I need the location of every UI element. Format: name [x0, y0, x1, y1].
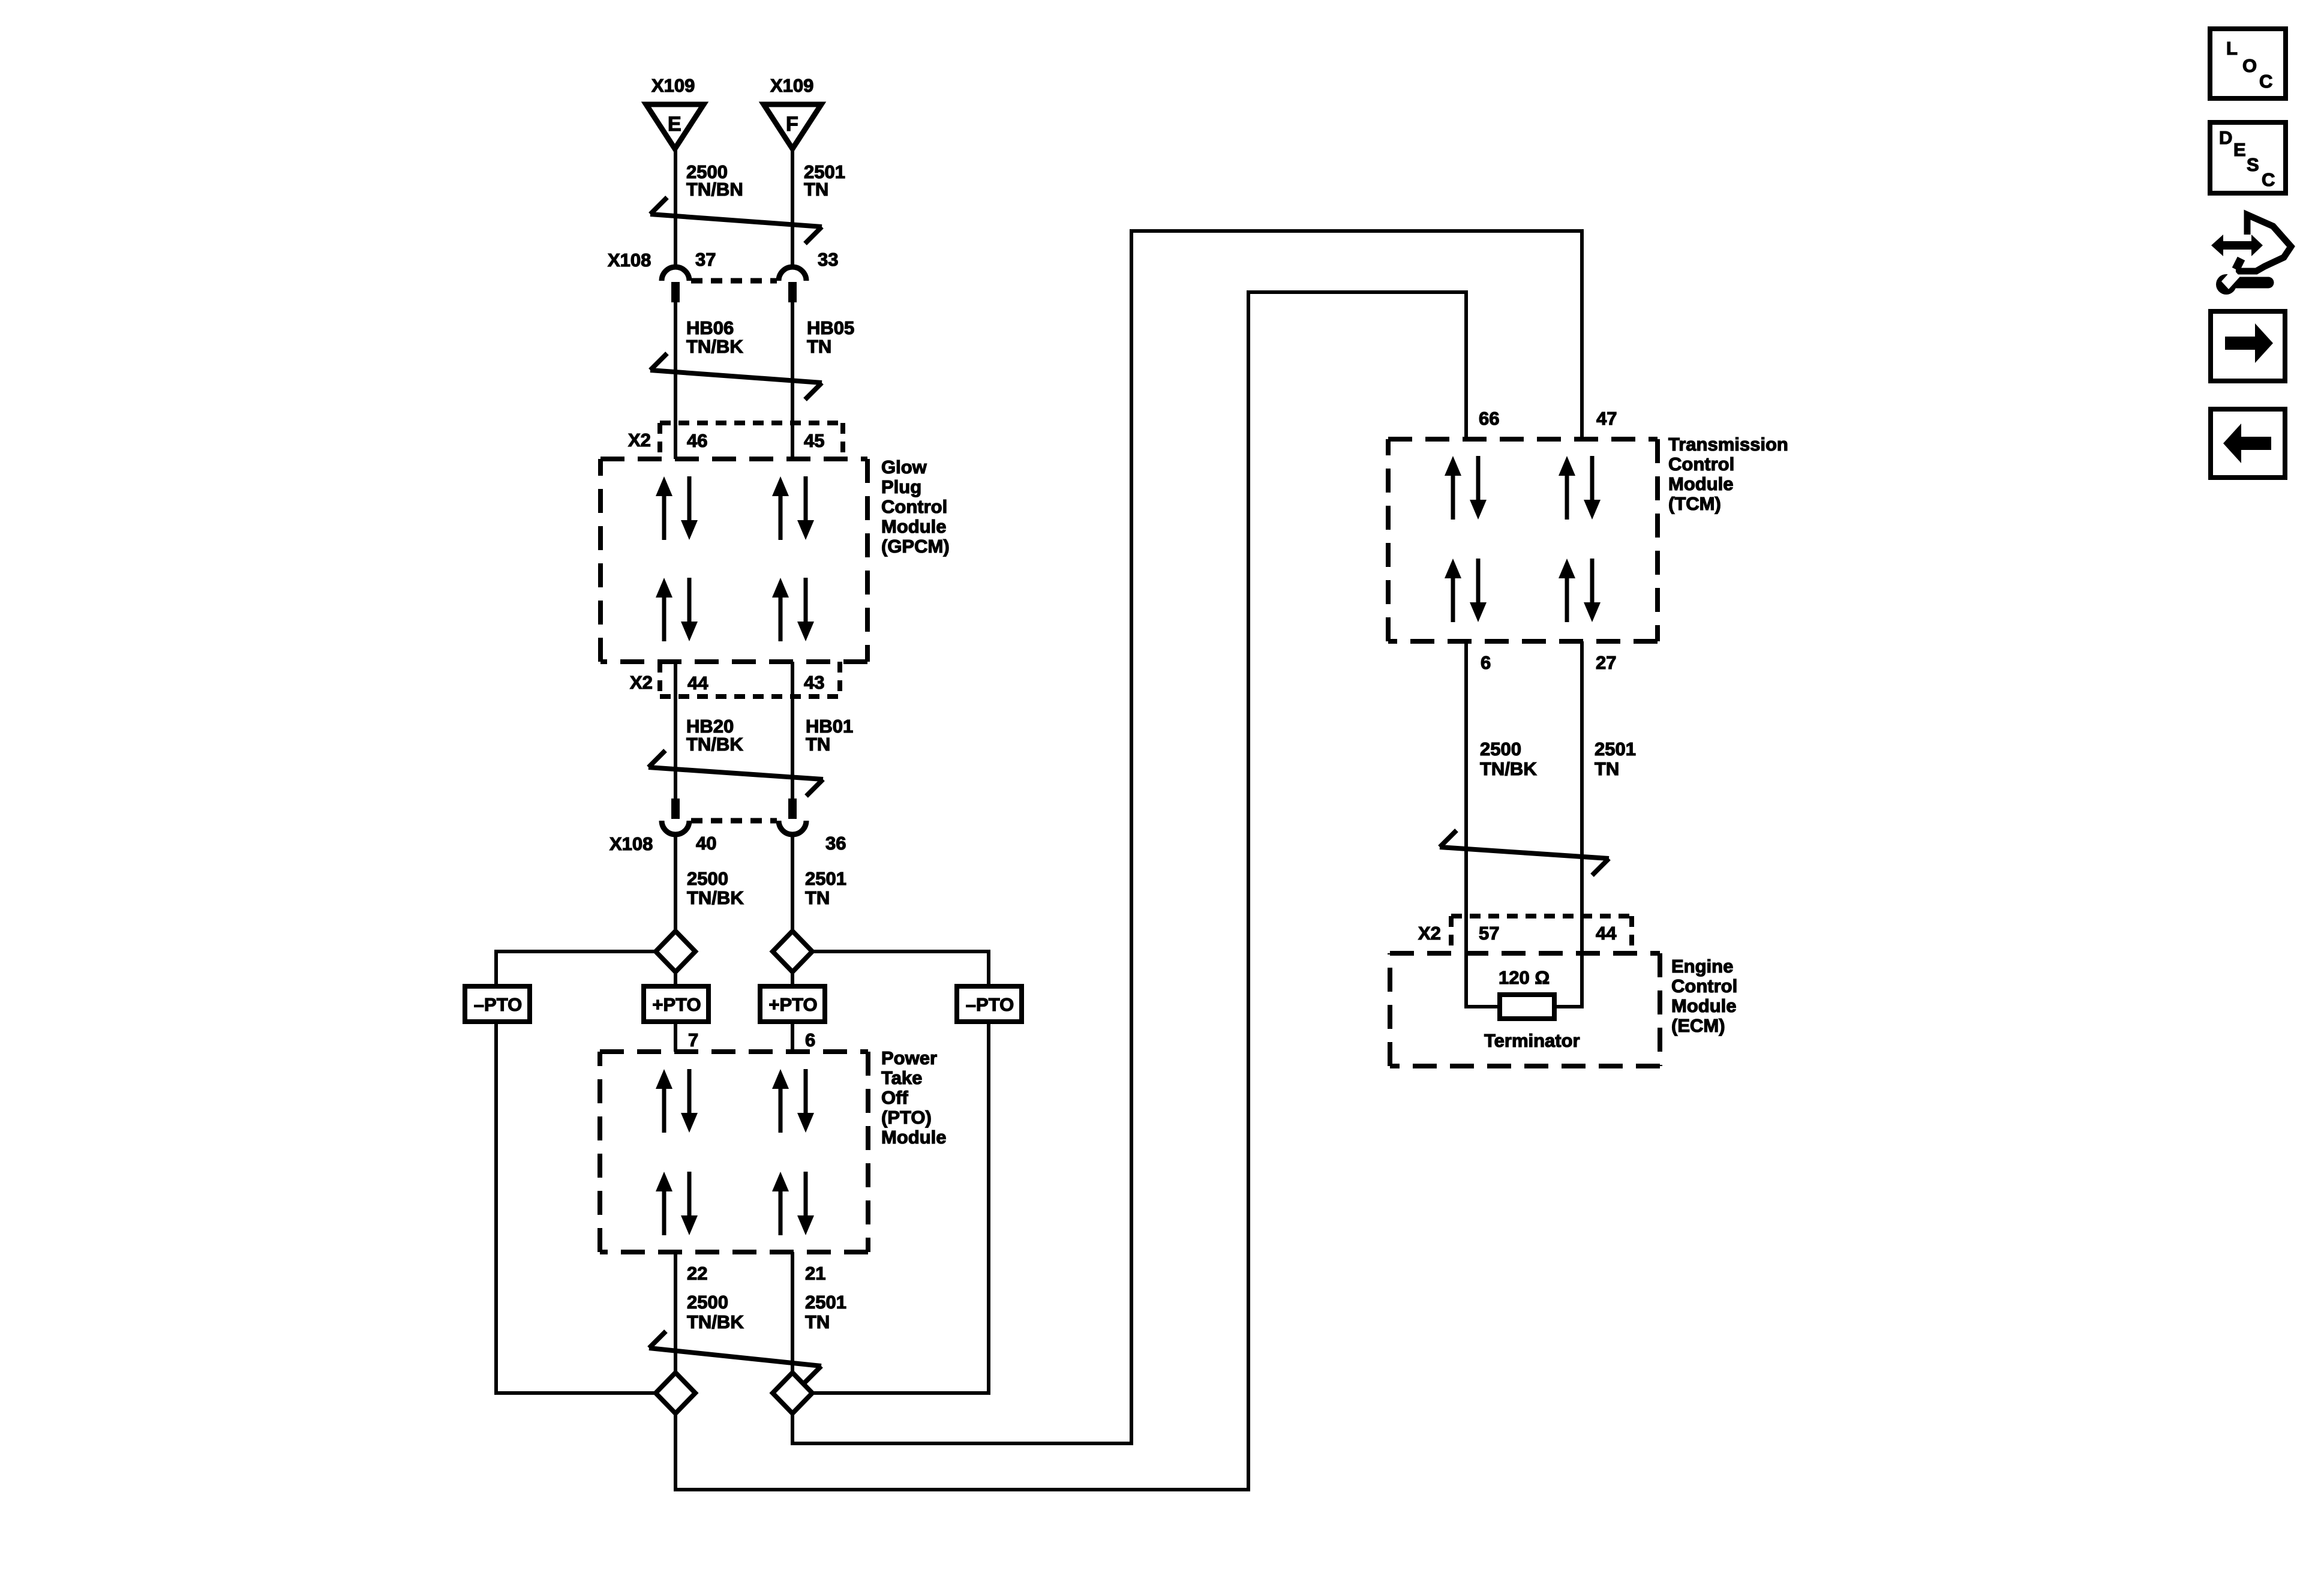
icon wrench	[2216, 274, 2236, 295]
wire diamond to +PTO (left)	[674, 972, 677, 986]
svg-text:X2: X2	[630, 672, 653, 693]
wire 2501 TN from X109-F down	[791, 149, 794, 267]
splice diamond (2501)	[773, 931, 812, 972]
svg-text:2501: 2501	[805, 868, 846, 889]
svg-text:TN/BK: TN/BK	[1480, 758, 1537, 779]
svg-text:Module: Module	[881, 1127, 947, 1148]
svg-text:40: 40	[696, 833, 716, 854]
wire 2500 TN/BK TCM pin 6 to ECM pin 57	[1466, 641, 1500, 1007]
svg-text:Control: Control	[1671, 975, 1737, 996]
PTO arrow pair bottom-right	[772, 1172, 814, 1235]
wire HB20 TN/BK down from GPCM	[674, 662, 677, 798]
svg-text:Transmission: Transmission	[1668, 434, 1788, 455]
connector X108 socket arc (pin 40)	[662, 821, 689, 834]
svg-text:2500: 2500	[687, 1292, 728, 1313]
svg-text:C: C	[2259, 71, 2272, 92]
icon DESC box	[2210, 122, 2286, 193]
svg-text:TN: TN	[804, 179, 828, 200]
svg-text:TN: TN	[805, 887, 830, 908]
svg-text:O: O	[2242, 55, 2257, 76]
svg-text:Glow: Glow	[881, 457, 927, 478]
harness break symbol 1	[650, 197, 822, 244]
icon diagnostic pointer outline	[2236, 215, 2291, 271]
wire HB06 TN/BK down to X2	[674, 302, 677, 459]
svg-text:TN: TN	[806, 734, 830, 755]
svg-text:37: 37	[695, 249, 716, 270]
svg-text:TN/BK: TN/BK	[687, 1311, 744, 1332]
harness break symbol 3	[648, 751, 823, 796]
svg-text:6: 6	[805, 1029, 815, 1050]
svg-text:Control: Control	[881, 496, 947, 517]
GPCM arrow pair top-left	[656, 476, 698, 540]
wire right -PTO down to bottom splice	[812, 1022, 989, 1393]
node +PTO box (right)	[760, 986, 825, 1022]
wire 2501 TN down to splice	[791, 834, 794, 932]
wire diamond to +PTO (right)	[791, 972, 794, 986]
svg-text:X109: X109	[770, 75, 813, 96]
GPCM arrow pair top-right	[772, 476, 814, 540]
GPCM arrow pair bottom-left	[656, 578, 698, 641]
svg-text:33: 33	[818, 249, 838, 270]
splice diamond bottom (2500)	[656, 1373, 695, 1413]
module PTO dashed box	[600, 1049, 868, 1054]
svg-text:44: 44	[1596, 923, 1617, 944]
svg-text:Off: Off	[881, 1087, 908, 1108]
svg-text:Module: Module	[881, 516, 947, 537]
connector X109 triangle F	[764, 104, 821, 149]
wire PTO pin 21 down	[791, 1252, 794, 1373]
GPCM arrow pair bottom-right	[772, 578, 814, 641]
icon diagnostic double arrow	[2211, 235, 2263, 256]
svg-text:2500: 2500	[1480, 739, 1521, 760]
splice diamond bottom (2501)	[773, 1373, 812, 1413]
svg-text:(TCM): (TCM)	[1668, 493, 1721, 514]
svg-text:47: 47	[1596, 408, 1617, 429]
resistor R terminator 120 ohm	[1500, 995, 1554, 1019]
node +PTO box (left)	[644, 986, 708, 1022]
svg-text:TN/BN: TN/BN	[686, 179, 743, 200]
connector X108 pin blade (37)	[671, 282, 680, 302]
connector X108 pin blade (33)	[788, 282, 797, 302]
connector X2 (GPCM top) dotted outline	[660, 423, 843, 457]
svg-text:27: 27	[1596, 652, 1616, 673]
svg-text:44: 44	[687, 673, 708, 694]
module TCM dashed box	[1388, 437, 1658, 442]
svg-text:Control: Control	[1668, 454, 1734, 475]
svg-text:2500: 2500	[687, 868, 728, 889]
svg-text:X2: X2	[1418, 923, 1441, 944]
harness break symbol 4	[1440, 830, 1609, 875]
module ECM dashed box	[1390, 951, 1660, 956]
svg-text:TN: TN	[805, 1311, 830, 1332]
wire 2500 TN/BK down to splice	[674, 834, 677, 932]
TCM arrow pair bottom-right	[1559, 559, 1601, 622]
svg-text:HB06: HB06	[686, 317, 734, 338]
svg-text:43: 43	[804, 672, 824, 693]
icon back arrow box	[2211, 409, 2285, 478]
PTO arrow pair top-left	[656, 1069, 698, 1133]
wire +PTO to PTO module pin 7	[674, 1022, 677, 1052]
svg-text:S: S	[2247, 154, 2259, 175]
svg-text:–PTO: –PTO	[966, 994, 1014, 1015]
svg-text:X108: X108	[609, 833, 653, 854]
connector X108 socket arc (pin 36)	[779, 821, 806, 834]
TCM arrow pair bottom-left	[1445, 559, 1487, 622]
svg-text:+PTO: +PTO	[652, 994, 701, 1015]
wire HB01 TN down from GPCM	[791, 662, 794, 798]
wire 2500 loop to TCM pin 66	[675, 292, 1466, 1490]
wire 2501 TN TCM pin 27 to ECM pin 44	[1554, 641, 1582, 1007]
connector X2 (ECM) dotted outline	[1451, 916, 1632, 953]
svg-text:(ECM): (ECM)	[1671, 1015, 1725, 1036]
svg-text:D: D	[2219, 127, 2232, 148]
wire +PTO to PTO module pin 6	[791, 1022, 794, 1052]
svg-text:HB05: HB05	[807, 317, 854, 338]
connector X108 dashed tie line (bottom)	[691, 818, 777, 824]
wire HB05 TN down to X2	[791, 302, 794, 459]
svg-text:22: 22	[687, 1263, 707, 1284]
svg-text:TN: TN	[1595, 758, 1619, 779]
svg-text:E: E	[2233, 139, 2246, 160]
svg-text:X109: X109	[651, 75, 695, 96]
node -PTO box (far right)	[957, 986, 1022, 1022]
svg-text:Plug: Plug	[881, 476, 921, 497]
svg-text:TN/BK: TN/BK	[686, 734, 743, 755]
svg-text:X108: X108	[608, 250, 651, 271]
node -PTO box (far left)	[465, 986, 530, 1022]
svg-text:46: 46	[687, 430, 707, 451]
svg-text:2501: 2501	[805, 1292, 846, 1313]
svg-text:Terminator: Terminator	[1484, 1030, 1580, 1051]
connector X108 socket arc (pin 37)	[662, 267, 689, 281]
svg-text:TN/BK: TN/BK	[686, 336, 743, 357]
icon LOC box	[2210, 29, 2286, 98]
PTO arrow pair top-right	[772, 1069, 814, 1133]
svg-text:(PTO): (PTO)	[881, 1107, 932, 1128]
connector X108 pin blade (36)	[788, 798, 797, 819]
wire 2501 loop to TCM pin 47	[792, 231, 1582, 1443]
wire left -PTO down to bottom splice	[496, 1022, 656, 1393]
wire splice branch to right -PTO	[813, 951, 989, 986]
connector X2 (GPCM bottom) dotted outline	[660, 662, 840, 697]
connector X108 dashed tie line	[691, 278, 777, 284]
svg-text:TN/BK: TN/BK	[687, 887, 744, 908]
icon forward arrow box	[2211, 311, 2285, 381]
svg-text:Module: Module	[1668, 473, 1734, 494]
wire 2500 TN/BN from X109-E down	[674, 149, 677, 267]
svg-text:57: 57	[1479, 923, 1499, 944]
svg-text:+PTO: +PTO	[768, 994, 817, 1015]
svg-text:Take: Take	[881, 1067, 922, 1088]
harness break symbol 2	[650, 353, 822, 400]
svg-text:120 Ω: 120 Ω	[1499, 967, 1550, 988]
svg-text:E: E	[668, 113, 681, 136]
splice diamond (2500)	[656, 931, 695, 972]
svg-text:Power: Power	[881, 1047, 937, 1068]
connector X108 socket arc (pin 33)	[779, 267, 806, 281]
svg-text:6: 6	[1481, 652, 1491, 673]
svg-text:TN: TN	[807, 336, 831, 357]
TCM arrow pair top-left	[1445, 456, 1487, 520]
svg-text:21: 21	[805, 1263, 825, 1284]
wire splice branch to left -PTO	[496, 951, 655, 986]
wire PTO pin 22 down	[674, 1252, 677, 1373]
module GPCM dashed box	[600, 457, 867, 461]
svg-text:7: 7	[688, 1029, 698, 1050]
svg-text:2501: 2501	[1595, 739, 1636, 760]
svg-text:Engine: Engine	[1671, 956, 1733, 977]
connector X109 triangle E	[646, 104, 704, 149]
svg-text:Module: Module	[1671, 995, 1737, 1016]
svg-text:L: L	[2226, 38, 2238, 59]
svg-text:F: F	[786, 113, 798, 136]
svg-text:66: 66	[1479, 408, 1499, 429]
svg-text:X2: X2	[628, 430, 651, 451]
TCM arrow pair top-right	[1559, 456, 1601, 520]
svg-text:45: 45	[804, 430, 824, 451]
svg-text:36: 36	[825, 833, 846, 854]
svg-text:C: C	[2262, 169, 2275, 190]
connector X108 pin blade (40)	[671, 798, 680, 819]
PTO arrow pair bottom-left	[656, 1172, 698, 1235]
svg-text:–PTO: –PTO	[474, 994, 522, 1015]
harness break symbol 5	[649, 1331, 821, 1383]
svg-text:(GPCM): (GPCM)	[881, 536, 950, 557]
